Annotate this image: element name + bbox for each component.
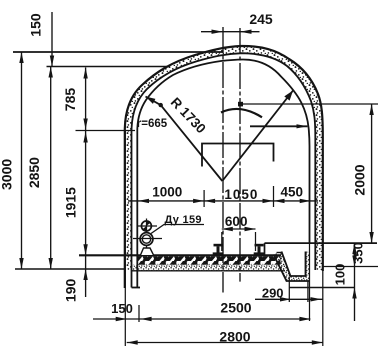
svg-text:245: 245 [249, 11, 273, 27]
svg-text:2800: 2800 [219, 329, 250, 345]
svg-text:600: 600 [225, 214, 248, 229]
svg-text:290: 290 [262, 286, 284, 301]
svg-text:3000: 3000 [0, 159, 15, 190]
svg-text:190: 190 [63, 279, 79, 303]
svg-text:R 1730: R 1730 [168, 95, 209, 137]
svg-text:2000: 2000 [352, 164, 368, 195]
svg-text:1915: 1915 [63, 187, 79, 218]
svg-text:150: 150 [111, 301, 133, 316]
svg-text:2850: 2850 [26, 157, 42, 188]
svg-text:100: 100 [333, 264, 348, 286]
svg-text:785: 785 [62, 88, 78, 112]
svg-text:1000: 1000 [152, 185, 182, 200]
svg-text:350: 350 [351, 242, 366, 264]
svg-text:Ду 159: Ду 159 [165, 214, 202, 226]
svg-text:450: 450 [281, 185, 304, 200]
svg-text:r=665: r=665 [137, 118, 168, 130]
svg-text:150: 150 [28, 13, 44, 37]
svg-text:1050: 1050 [224, 187, 258, 202]
svg-text:2500: 2500 [220, 300, 251, 316]
